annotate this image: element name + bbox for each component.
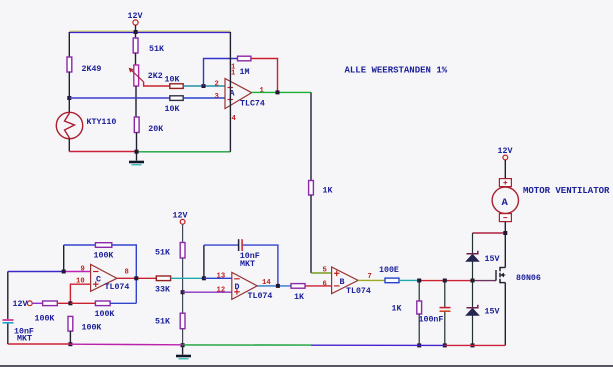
- node pin9 junction: [62, 270, 66, 274]
- label 100K vertical: [82, 324, 102, 333]
- wire cap D top left: [204, 244, 238, 246]
- capacitor 100nF: [440, 308, 451, 312]
- motor M1 body circle: [492, 187, 518, 213]
- svg-text:10K: 10K: [165, 105, 180, 114]
- label 51K mid top: [155, 249, 170, 258]
- wire zener top to gate row: [472, 261, 474, 280]
- op-amp U1B TL074 triangle: [332, 267, 358, 294]
- node top rail junction: [134, 30, 138, 34]
- resistor 33K: [156, 276, 170, 281]
- svg-text:9: 9: [81, 266, 85, 274]
- ground symbol top section: [129, 154, 144, 165]
- supply 12V left label: [13, 300, 28, 309]
- label 1K mid: [323, 187, 333, 196]
- wire drain link row: [473, 232, 506, 234]
- label 1M: [240, 68, 250, 77]
- capacitor 10nF MKT feedback D: [239, 239, 243, 251]
- wire feedback C top left: [64, 244, 96, 246]
- svg-text:33K: 33K: [155, 286, 170, 295]
- svg-text:3: 3: [215, 93, 219, 101]
- wire bottom rail segment 4: [311, 344, 445, 346]
- resistor 51K top: [133, 38, 138, 53]
- op-amp C plus sign: [93, 281, 99, 287]
- wire left branch upper: [68, 32, 70, 57]
- svg-text:20K: 20K: [148, 125, 163, 134]
- wire 20K to bottom rail: [136, 133, 138, 152]
- svg-text:D: D: [235, 283, 240, 292]
- label 10K upper: [165, 76, 180, 85]
- wire 100nF vertical lower: [444, 312, 446, 346]
- label 100nF: [419, 316, 444, 325]
- op-amp C letter: [96, 276, 101, 285]
- wire 12V mid to 51K: [182, 224, 184, 242]
- note ALLE WEERSTANDEN 1%: [345, 66, 448, 76]
- wire 1K mid down to op-amp B plus: [311, 195, 332, 273]
- pin 10 label: [76, 278, 85, 286]
- svg-text:ALLE WEERSTANDEN 1%: ALLE WEERSTANDEN 1%: [345, 66, 448, 76]
- wire feedback up from pin2: [204, 59, 238, 87]
- wire feedback right to output: [251, 59, 278, 93]
- svg-text:C: C: [96, 276, 101, 285]
- svg-text:2K49: 2K49: [82, 65, 102, 74]
- wire op-amp A output: [252, 91, 311, 93]
- op-amp D plus sign: [234, 289, 240, 295]
- transistor Q1 80N06 MOSFET: [496, 267, 505, 284]
- resistor 100K vertical: [68, 316, 73, 331]
- wire left vertical to cap: [7, 272, 9, 320]
- node output junction: [276, 90, 280, 94]
- svg-text:15V: 15V: [485, 308, 500, 317]
- wire zener top vertical: [472, 233, 474, 254]
- wire divider to 100K bottom: [70, 302, 95, 304]
- node pin13 cap junction: [202, 276, 206, 280]
- svg-text:2: 2: [215, 81, 219, 89]
- pin 7 label: [368, 273, 372, 281]
- svg-text:TL074: TL074: [105, 283, 130, 292]
- label 10nF MKT left: [14, 328, 34, 344]
- wire 100K vertical to rail: [69, 331, 71, 344]
- pin 4 label: [232, 115, 237, 123]
- node 1K right junction: [417, 279, 421, 283]
- node bottom rail junction: [135, 150, 139, 154]
- resistor 1K mid: [309, 181, 314, 196]
- svg-text:TL074: TL074: [346, 287, 371, 296]
- label TLC74: [240, 100, 265, 109]
- wire pin10 row: [70, 284, 90, 303]
- op-amp U1D TL074 triangle: [232, 272, 257, 299]
- svg-text:12V: 12V: [13, 300, 28, 309]
- resistor 100K left horizontal: [43, 301, 58, 306]
- wire motor to drain: [504, 222, 506, 268]
- wire feedback C vertical left: [63, 245, 65, 272]
- wire 51K bottom to rail: [182, 329, 184, 346]
- potentiometer 2K2 body: [134, 65, 139, 86]
- wire 12V stub: [135, 25, 137, 32]
- wire bottom rail segment 1: [8, 343, 71, 345]
- wire 1K to op-amp B minus: [305, 285, 332, 287]
- svg-text:100K: 100K: [95, 310, 115, 319]
- op-amp D minus sign: [234, 278, 240, 280]
- resistor 100K bottom horizontal: [95, 301, 110, 306]
- label 33K: [155, 286, 170, 295]
- svg-text:12V: 12V: [173, 212, 188, 221]
- node pin2 feedback junction: [202, 84, 206, 88]
- label 15V top: [485, 255, 500, 264]
- svg-text:4: 4: [232, 115, 237, 123]
- capacitor 10nF MKT left: [3, 320, 14, 323]
- label 15V bottom: [485, 308, 500, 317]
- svg-text:13: 13: [217, 273, 226, 281]
- svg-text:A: A: [502, 197, 509, 209]
- wire pot to 20K: [135, 86, 137, 117]
- resistor 10K upper: [170, 84, 183, 89]
- op-amp B minus sign bottom: [334, 285, 340, 287]
- pin 13 label: [217, 273, 226, 281]
- wire op-amp B output: [358, 279, 385, 281]
- resistor 51K mid bottom: [180, 313, 185, 329]
- resistor 1K horizontal: [291, 284, 305, 289]
- wire 100nF vertical upper: [444, 280, 446, 307]
- supply 12V motor label: [498, 147, 513, 156]
- node divider junction: [68, 301, 72, 305]
- resistor 1K right: [417, 301, 422, 314]
- wire top rail: [69, 31, 230, 32]
- op-amp B letter: [340, 278, 345, 287]
- motor M1 brush top: [499, 179, 511, 187]
- wire bottom rail segment 2: [70, 343, 182, 346]
- wire bottom rail right (green): [137, 151, 231, 153]
- node op-amp C output junction: [134, 276, 138, 280]
- wire node A to KTY110: [68, 98, 70, 113]
- wire 51K top stub: [135, 32, 137, 38]
- wire op-amp C output: [117, 277, 156, 279]
- supply 12V left circle: [27, 301, 32, 306]
- label TL074 C: [105, 283, 130, 292]
- wire cap to bottom rail: [7, 324, 9, 345]
- svg-text:TLC74: TLC74: [240, 100, 265, 109]
- node drain link junction: [503, 231, 507, 235]
- label 10nF MKT feedback D: [240, 252, 260, 269]
- wire 51K to pot: [135, 53, 137, 65]
- svg-text:MKT: MKT: [17, 335, 32, 344]
- node divider mid junction: [181, 290, 185, 294]
- wire pin12 row: [183, 291, 232, 293]
- wire 2K49 to node A: [68, 72, 70, 98]
- svg-text:5: 5: [323, 267, 327, 275]
- pin 9 label: [81, 266, 85, 274]
- svg-text:1: 1: [260, 87, 265, 95]
- wire cap D vertical: [203, 245, 205, 278]
- wire pot wiper to 10K: [144, 82, 170, 86]
- label 2K49: [82, 65, 102, 74]
- sensor KTY110: [56, 112, 82, 138]
- svg-text:15V: 15V: [485, 255, 500, 264]
- label 100E: [379, 266, 399, 275]
- label 100K bottom horizontal: [95, 310, 115, 319]
- op-amp U1C TL074 triangle: [91, 264, 117, 291]
- wire bottom rail left (red): [69, 151, 136, 153]
- svg-text:100K: 100K: [94, 252, 114, 261]
- label TL074 D: [248, 292, 273, 301]
- wire 51K to divider junction: [182, 258, 184, 313]
- pin 6 label: [323, 280, 327, 288]
- wire op-amp A V+ pin 11: [229, 32, 231, 92]
- pin 14 label: [262, 279, 271, 287]
- wire zener bottom to rail: [472, 315, 474, 345]
- node 100nF rail junction: [443, 343, 447, 347]
- ground symbol bottom: [176, 345, 191, 359]
- wire bottom rail segment 3: [183, 344, 311, 346]
- wire 100E to gate nodes: [399, 279, 496, 281]
- svg-text:10K: 10K: [165, 76, 180, 85]
- potentiometer 2K2 wiper arrow: [129, 68, 144, 82]
- supply 12V top label: [128, 12, 143, 21]
- node 1K rail junction: [417, 343, 421, 347]
- svg-text:80N06: 80N06: [516, 274, 541, 283]
- svg-text:100nF: 100nF: [419, 316, 444, 325]
- pin 3 label: [215, 93, 219, 101]
- node zener junction: [471, 279, 475, 283]
- op-amp D letter: [235, 283, 240, 292]
- svg-text:51K: 51K: [149, 45, 164, 54]
- op-amp A minus sign: [228, 87, 234, 89]
- svg-text:8: 8: [125, 269, 129, 277]
- pin 12 label: [217, 286, 226, 294]
- wire 100K bottom to output vertical: [110, 278, 136, 303]
- svg-text:TL074: TL074: [248, 292, 273, 301]
- node rail junction mid: [181, 343, 185, 347]
- zener diode 15V bottom: [466, 305, 478, 316]
- label MOTOR VENTILATOR: [523, 186, 610, 196]
- supply 12V motor circle: [503, 155, 508, 160]
- svg-text:1K: 1K: [323, 187, 333, 196]
- svg-text:MKT: MKT: [240, 260, 255, 269]
- pin 2 label: [215, 81, 219, 89]
- pin 8 label: [125, 269, 129, 277]
- wire feedback C top right: [112, 245, 137, 278]
- svg-text:51K: 51K: [155, 318, 170, 327]
- label TL074 B: [346, 287, 371, 296]
- wire 12V to motor: [504, 160, 506, 179]
- svg-text:B: B: [340, 278, 345, 287]
- wire 33K to pin 13 node: [171, 277, 204, 279]
- node A junction dot: [67, 96, 71, 100]
- node 100nF junction: [443, 279, 447, 283]
- svg-text:100K: 100K: [82, 324, 102, 333]
- motor M1 brush bottom: [499, 214, 511, 222]
- pin 5 label: [323, 267, 327, 275]
- wire input row to pin 9: [8, 271, 91, 273]
- resistor 2K49: [67, 57, 72, 72]
- svg-text:1K: 1K: [294, 293, 304, 302]
- wire 10K upper to pin2: [183, 85, 225, 87]
- op-amp B plus sign top: [334, 271, 340, 277]
- label 10K lower: [165, 105, 180, 114]
- resistor 100E: [385, 278, 399, 283]
- svg-text:12: 12: [217, 286, 226, 294]
- label 51K mid bottom: [155, 318, 170, 327]
- resistor 10K lower: [170, 96, 183, 101]
- pin 11 label: [231, 63, 236, 77]
- wire op-amp D output: [257, 285, 291, 287]
- svg-text:6: 6: [323, 280, 327, 288]
- motor letter A: [502, 197, 509, 209]
- svg-text:1K: 1K: [392, 305, 402, 314]
- wire op-amp A V- pin 4: [229, 92, 231, 152]
- supply 12V mid circle: [180, 219, 185, 224]
- wire 1K right vertical upper: [418, 280, 420, 301]
- label 80N06: [516, 274, 541, 283]
- svg-text:100K: 100K: [35, 315, 55, 324]
- zener diode 15V top: [466, 251, 478, 261]
- label 1K horizontal: [294, 293, 304, 302]
- wire 12V left to 100K: [32, 302, 42, 304]
- wire pin13 node to op-amp D: [204, 277, 232, 279]
- op-amp C minus sign: [93, 271, 99, 273]
- wire 10K lower to pin3: [183, 97, 225, 99]
- wire KTY110 to bottom rail: [68, 139, 70, 152]
- label 100K feedback C: [94, 252, 114, 261]
- op-amp U1A TLC74 triangle: [225, 79, 252, 109]
- wire zener bottom vertical: [472, 281, 474, 308]
- wire cap D top right: [243, 245, 278, 286]
- label 1K right: [392, 305, 402, 314]
- resistor 100K feedback C: [95, 243, 111, 248]
- node op-amp D output junction: [276, 284, 280, 288]
- label 51K top: [149, 45, 164, 54]
- pin 1 label: [260, 87, 265, 95]
- resistor 1M: [238, 56, 251, 61]
- wire bottom rail segment 5: [445, 344, 506, 346]
- svg-text:1M: 1M: [240, 68, 250, 77]
- wire 100K to divider node: [57, 302, 70, 304]
- node rail junction left: [68, 342, 72, 346]
- supply 12V top pin circle: [133, 20, 138, 25]
- resistor 51K mid top: [180, 243, 185, 259]
- resistor 20K: [134, 117, 139, 133]
- svg-text:1: 1: [231, 69, 236, 77]
- svg-text:MOTOR VENTILATOR: MOTOR VENTILATOR: [523, 186, 610, 196]
- wire node A to 10K lower: [69, 97, 170, 99]
- svg-text:100E: 100E: [379, 266, 399, 275]
- label 100K left horizontal: [35, 315, 55, 324]
- supply 12V mid label: [173, 212, 188, 221]
- label 20K: [148, 125, 163, 134]
- label 2K2: [148, 72, 163, 81]
- svg-text:KTY110: KTY110: [87, 118, 117, 127]
- label KTY110: [87, 118, 117, 127]
- svg-text:51K: 51K: [155, 249, 170, 258]
- svg-text:2K2: 2K2: [148, 72, 163, 81]
- op-amp A plus sign: [228, 97, 234, 103]
- op-amp A letter: [230, 90, 235, 99]
- wire output down to 1K: [310, 92, 312, 180]
- node zener rail junction: [471, 343, 475, 347]
- bottom window border: [0, 365, 613, 367]
- wire 1K right vertical lower: [418, 314, 420, 345]
- wire mosfet source to rail: [504, 283, 506, 346]
